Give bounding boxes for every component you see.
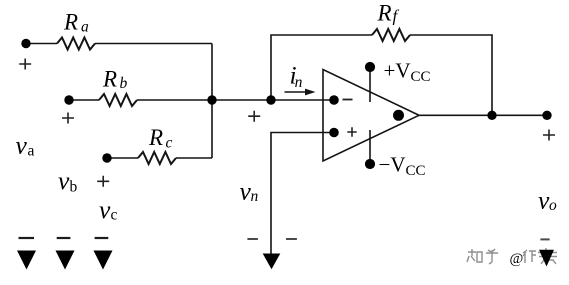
svg-text:a: a xyxy=(81,19,89,36)
svg-text:n: n xyxy=(295,74,303,91)
svg-text:@: @ xyxy=(510,251,524,267)
svg-text:n: n xyxy=(251,188,259,205)
svg-text:b: b xyxy=(70,179,78,196)
svg-text:c: c xyxy=(166,135,173,152)
svg-text:−VCC: −VCC xyxy=(379,153,426,180)
svg-text:v: v xyxy=(16,131,28,160)
svg-text:b: b xyxy=(120,75,128,92)
svg-text:v: v xyxy=(58,166,70,195)
svg-text:o: o xyxy=(549,197,557,214)
svg-text:v: v xyxy=(99,195,111,224)
svg-text:R: R xyxy=(377,1,392,26)
svg-text:R: R xyxy=(63,10,78,35)
svg-text:c: c xyxy=(111,207,118,224)
svg-text:a: a xyxy=(28,143,35,160)
svg-text:f: f xyxy=(393,7,400,26)
svg-text:+VCC: +VCC xyxy=(384,59,431,86)
svg-text:R: R xyxy=(148,125,163,150)
svg-text:R: R xyxy=(102,67,117,92)
